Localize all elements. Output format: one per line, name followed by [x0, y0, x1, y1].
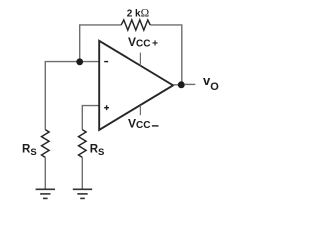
- wire: RS1 upper vertical: [44, 61, 46, 130]
- resistor 2 kΩ (feedback) zigzag: [121, 20, 150, 30]
- wire: RS1 lower vertical: [44, 157, 46, 189]
- ground (right): [73, 189, 92, 198]
- svg-text:RS: RS: [90, 144, 105, 159]
- svg-text:2 kΩ: 2 kΩ: [127, 8, 149, 20]
- op-amp non-inverting pin marker (+): [104, 105, 109, 110]
- wire: VCC+ stub: [139, 53, 141, 66]
- node: output junction dot: [178, 81, 185, 88]
- svg-text:VCC: VCC: [128, 117, 150, 132]
- wire: output to vO: [185, 83, 196, 85]
- wire: feedback top horizontal left of resistor: [79, 24, 121, 26]
- resistor RS1 zigzag: [42, 130, 50, 158]
- wire: feedback top horizontal right of resistor: [150, 24, 182, 26]
- wire: VCC− stub: [139, 105, 141, 115]
- svg-text:VCC+: VCC+: [128, 35, 158, 50]
- node: inverting input junction dot: [76, 58, 83, 65]
- svg-text:vO: vO: [203, 73, 219, 93]
- ground (left): [36, 189, 55, 198]
- wire: RS2 upper vertical: [81, 105, 83, 130]
- wire: inverting input: [45, 61, 99, 63]
- svg-text:RS: RS: [22, 144, 37, 159]
- op-amp U1 triangle: [99, 41, 173, 130]
- label VCC− dash: [152, 125, 159, 127]
- wire: feedback right vertical: [181, 25, 183, 85]
- op-amp inverting pin marker (−): [104, 61, 108, 63]
- wire: RS2 lower vertical: [81, 157, 83, 189]
- wire: non-inverting input: [83, 105, 100, 107]
- wire: feedback left vertical: [79, 25, 81, 62]
- wire: op-amp output to node: [173, 84, 181, 86]
- resistor RS2 zigzag: [79, 130, 87, 158]
